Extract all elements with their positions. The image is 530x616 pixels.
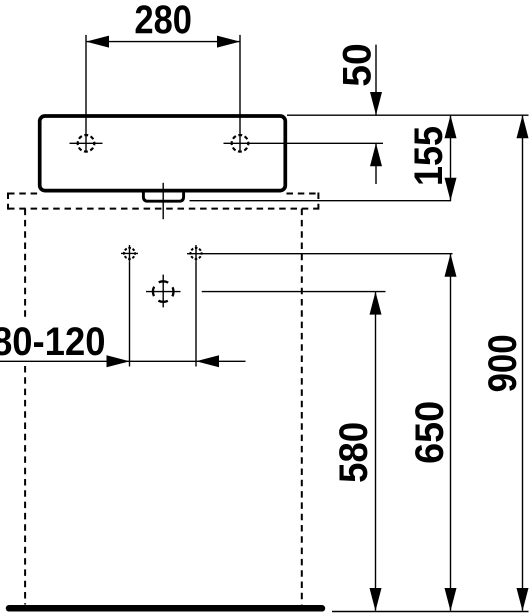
- arrowhead pointing left at right fixing line: [196, 355, 219, 367]
- console dashed outline bottom: [8, 208, 318, 210]
- console dashed outline right: [317, 193, 319, 210]
- dimension label 80-120: [0, 327, 104, 355]
- dimension label 280: [136, 5, 191, 33]
- dimension line 80-120: [0, 360, 246, 362]
- pedestal dashed left edge upper: [24, 209, 26, 320]
- fixing hole right: [191, 245, 202, 262]
- floor reference line thin: [332, 611, 529, 613]
- console dashed outline left: [7, 193, 9, 210]
- dimension line 580: [375, 292, 377, 611]
- pedestal dashed left edge lower: [24, 366, 26, 605]
- dimension label 50: [343, 45, 371, 86]
- extension line fixing hole level: [187, 253, 453, 255]
- tap hole right: [232, 135, 249, 152]
- console dashed outline top left segment: [8, 193, 39, 195]
- extension line under console (155 bottom reference): [190, 200, 452, 202]
- dimension label 580: [339, 423, 367, 481]
- extension line drain level: [202, 291, 386, 293]
- dimension line 900: [522, 115, 524, 611]
- dimension line 155: [450, 115, 452, 201]
- console dashed outline top right segment: [287, 193, 319, 195]
- washbasin body outline: [40, 116, 286, 191]
- drain hole symbol: [146, 275, 181, 308]
- floor line thick: [9, 605, 322, 612]
- fixing hole left: [121, 245, 138, 262]
- tap hole left: [70, 135, 103, 152]
- extension line right tap hole: [239, 35, 241, 152]
- arrowhead right of 280: [217, 36, 240, 48]
- pedestal dashed right edge: [301, 209, 303, 605]
- dimension label 650: [415, 402, 443, 462]
- dimension line 280: [86, 41, 240, 43]
- arrowhead pointing right at left fixing line: [107, 355, 130, 367]
- drain fitting below basin: [143, 191, 183, 202]
- drain centerline: [162, 183, 164, 219]
- dimension label 900: [488, 336, 516, 391]
- arrowhead left of 280: [86, 36, 109, 48]
- extension line from left fixing hole down: [129, 262, 131, 367]
- dimension label 155: [415, 127, 443, 184]
- dimension 50 upper segment with down arrow: [375, 45, 377, 115]
- dimension line 650: [450, 254, 452, 611]
- extension line tap hole level: [224, 142, 384, 144]
- extension line left tap hole: [85, 35, 87, 152]
- extension line from basin top rim to right: [287, 114, 529, 116]
- extension line from right fixing hole down: [195, 262, 197, 367]
- dimension 50 lower segment with up arrow: [375, 143, 377, 184]
